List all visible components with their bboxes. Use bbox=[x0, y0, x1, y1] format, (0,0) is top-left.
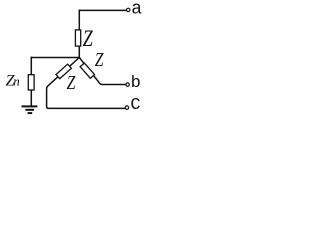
svg-text:a: a bbox=[131, 0, 142, 20]
svg-text:Z: Z bbox=[95, 48, 105, 70]
svg-text:Z: Z bbox=[83, 27, 93, 52]
svg-text:Z: Z bbox=[67, 71, 77, 93]
svg-text:C: C bbox=[130, 96, 140, 115]
svg-text:b: b bbox=[131, 74, 141, 93]
svg-text:n: n bbox=[13, 73, 20, 88]
